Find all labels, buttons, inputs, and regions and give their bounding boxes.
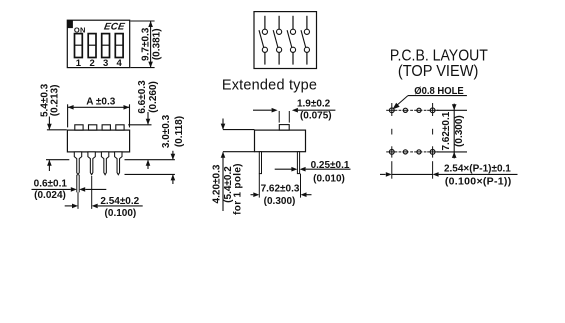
- dim line 6.6 upper: [147, 112, 149, 124]
- ext line bump top right: [128, 124, 151, 126]
- actuator bump 2: [89, 125, 97, 130]
- ext pin2 outer (7.62): [300, 174, 302, 198]
- actuator bump 4: [116, 125, 124, 130]
- dim line A: [68, 106, 130, 108]
- dim line 3.0 lower: [172, 175, 174, 184]
- dim line 1.9 right: [298, 109, 336, 111]
- top view switch body outline: [67, 20, 129, 67]
- ext pin1 right edge: [78, 175, 80, 193]
- ext line left (A dim): [67, 104, 69, 127]
- ext actuator right: [288, 111, 290, 123]
- switch slider 4: [115, 34, 123, 58]
- ext pin1 outer (7.62): [258, 174, 260, 198]
- switch pole 1 symbol: [259, 16, 268, 65]
- ext body top (4.2 dim): [223, 129, 255, 131]
- hole (419.0,110.3): [417, 108, 421, 112]
- front view body: [67, 130, 129, 152]
- svg-text:(0.300): (0.300): [454, 115, 465, 147]
- svg-text:P.C.B. LAYOUT: P.C.B. LAYOUT: [390, 47, 488, 64]
- switch slider 2: [88, 34, 96, 58]
- svg-text:(0.075): (0.075): [300, 110, 332, 121]
- centre line row y=151.9: [386, 151, 397, 153]
- centre line column x=391.8: [391, 103, 393, 116]
- dim line 2.54 left: [65, 205, 72, 207]
- dim line 7.62 left: [251, 194, 254, 196]
- dim line 5.4 lower: [48, 160, 50, 171]
- ext line right (A dim): [129, 104, 131, 127]
- switch slider 3: [102, 34, 110, 58]
- ext line seating right: [125, 159, 175, 161]
- ext line top (9.7 dim): [130, 20, 154, 22]
- pin 2 front view: [88, 152, 95, 175]
- pin 4 front view: [115, 152, 122, 175]
- svg-text:Extended type: Extended type: [222, 78, 317, 94]
- switch slider 1: [75, 34, 83, 58]
- svg-text:(0.300): (0.300): [264, 196, 296, 207]
- svg-text:A ±0.3: A ±0.3: [86, 97, 115, 108]
- dim line 7.62 pcb: [453, 110, 455, 152]
- hole (391.8,110.3): [389, 108, 394, 113]
- top view corner index mark: [67, 20, 73, 28]
- svg-text:1: 1: [76, 58, 82, 69]
- dim line 4.2: [222, 119, 224, 130]
- dim line 0.6 left: [32, 188, 71, 190]
- side pin left: [259, 152, 261, 174]
- ext line pin tip right: [125, 173, 175, 175]
- ext pin1 left edge: [76, 175, 78, 193]
- svg-text:0.6±0.1: 0.6±0.1: [34, 179, 68, 190]
- ext actuator left: [278, 111, 280, 123]
- schematic box: [254, 12, 317, 69]
- svg-text:(0.010): (0.010): [313, 174, 345, 185]
- svg-text:3: 3: [103, 58, 108, 69]
- svg-text:7.62±0.3: 7.62±0.3: [261, 184, 300, 195]
- svg-text:(0.118): (0.118): [174, 116, 185, 147]
- svg-text:(0.213): (0.213): [50, 85, 61, 117]
- svg-text:(0.260): (0.260): [148, 81, 159, 113]
- side view body: [255, 130, 306, 152]
- ext line seating left: [46, 159, 69, 161]
- hole (432.6,110.3): [430, 108, 435, 113]
- hole (391.8,151.9): [389, 150, 394, 155]
- label underline: [408, 95, 467, 97]
- side view actuator: [279, 125, 289, 131]
- ext pin1 centre: [77, 192, 79, 209]
- svg-text:(TOP VIEW): (TOP VIEW): [398, 63, 479, 80]
- svg-text:7.62±0.1: 7.62±0.1: [441, 111, 452, 150]
- dim line 3.0 upper: [172, 151, 174, 159]
- dim line 0.25 inner: [275, 168, 292, 170]
- ext line bottom (9.7 dim): [130, 67, 154, 69]
- dim line 9.7: [150, 21, 152, 68]
- hole (405.4,151.9): [403, 150, 407, 154]
- ext pin2 centre: [91, 176, 93, 209]
- svg-text:2: 2: [89, 58, 94, 69]
- pin 3 front view: [101, 152, 108, 175]
- leader to hole: [395, 96, 408, 108]
- switch pole 4 symbol: [301, 16, 310, 65]
- dim line 5.4 upper: [48, 117, 50, 130]
- actuator bump 1: [75, 125, 83, 130]
- svg-text:4.20±0.3: 4.20±0.3: [212, 164, 223, 203]
- hole (432.6,151.9): [430, 150, 435, 155]
- dim line 2.54 right: [98, 205, 143, 207]
- pin 1 front view: [74, 152, 81, 175]
- dim line 1.9 left: [253, 109, 272, 111]
- svg-text:9.7±0.3: 9.7±0.3: [140, 27, 151, 61]
- svg-text:for 1 pole): for 1 pole): [233, 163, 244, 215]
- dim line 7.62 right: [307, 194, 312, 196]
- hole (405.4,110.3): [403, 108, 407, 112]
- svg-text:2.54×(P-1)±0.1: 2.54×(P-1)±0.1: [444, 163, 511, 174]
- hole (419.0,151.9): [417, 150, 421, 154]
- svg-text:(0.024): (0.024): [34, 190, 66, 201]
- svg-text:4: 4: [117, 58, 123, 69]
- svg-text:3.0±0.3: 3.0±0.3: [161, 114, 172, 148]
- svg-text:(0.381): (0.381): [151, 28, 162, 60]
- dim line 6.6 lower: [147, 160, 149, 169]
- svg-text:6.6±0.3: 6.6±0.3: [137, 80, 148, 114]
- centre line column x=432.6: [432, 103, 434, 116]
- ext row1 right: [437, 109, 467, 111]
- dim line 2.54x(P-1): [380, 173, 386, 175]
- ext body bottom (4.2 dim): [223, 151, 255, 153]
- svg-text:(0.100): (0.100): [105, 208, 137, 219]
- ext row2 right: [437, 151, 467, 153]
- side pin right: [297, 152, 299, 174]
- dim line 0.25 outer: [306, 168, 351, 170]
- dim line 0.6 right: [85, 188, 106, 190]
- svg-text:1.9±0.2: 1.9±0.2: [297, 99, 331, 110]
- ext line body top left: [47, 129, 67, 131]
- svg-text:(0.100×(P-1)): (0.100×(P-1)): [445, 176, 512, 188]
- switch pole 3 symbol: [287, 16, 296, 65]
- switch pole 2 symbol: [273, 16, 282, 65]
- centre line row y=110.3: [386, 109, 397, 111]
- svg-text:ECE: ECE: [103, 22, 126, 33]
- actuator bump 3: [102, 125, 110, 130]
